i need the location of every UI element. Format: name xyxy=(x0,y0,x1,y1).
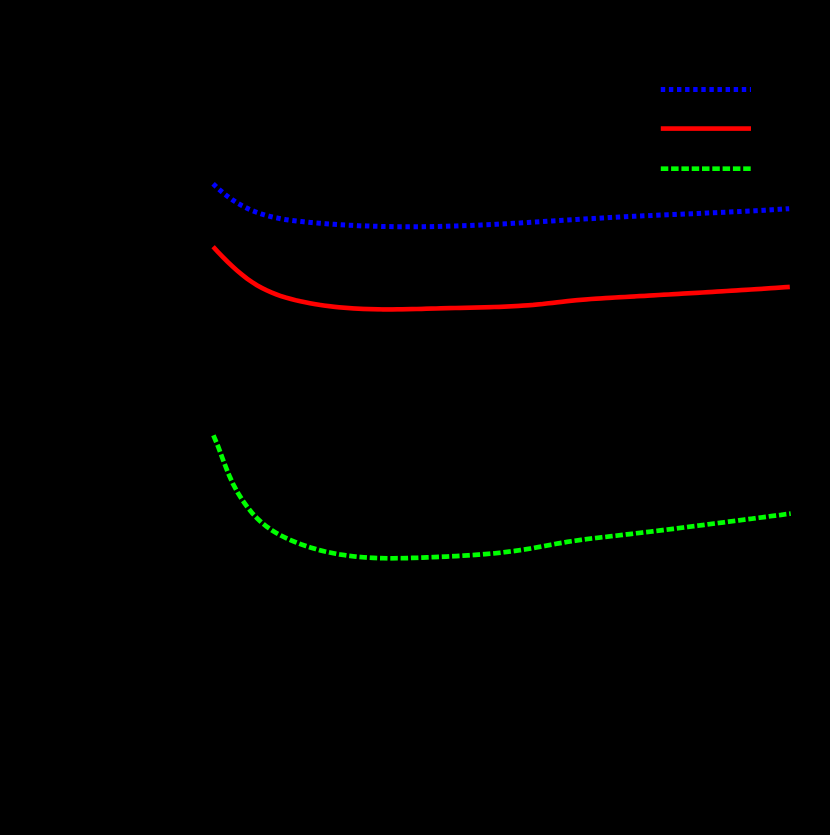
legend: blue dotted sample xyxy=(661,87,751,92)
red solid curve xyxy=(213,247,790,310)
legend: green dashed sample xyxy=(661,166,751,171)
legend: red solid sample xyxy=(661,126,751,131)
green dashed curve xyxy=(213,435,790,558)
blue dotted curve xyxy=(213,184,789,227)
